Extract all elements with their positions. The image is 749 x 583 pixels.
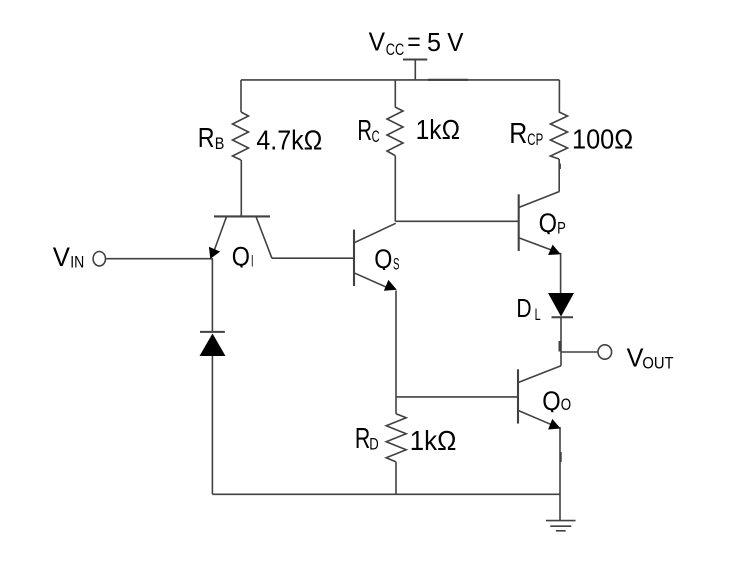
wire RD bottom lead (395, 462, 397, 494)
svg-text:D: D (516, 295, 531, 323)
diode D1 triangle (200, 334, 226, 357)
wire overlap artifact on RCP lower lead (559, 164, 561, 170)
svg-text:R: R (198, 122, 215, 153)
diode D_L triangle (548, 293, 574, 317)
transistor Q_O collector (518, 366, 561, 383)
wire QP emitter vertical to diode (560, 253, 562, 293)
transistor Q_I collector (256, 216, 272, 258)
svg-text:CP: CP (527, 131, 543, 149)
wire QS collector node to QP base (395, 220, 518, 222)
wire VOUT (561, 351, 598, 353)
wire overlap artifact above VOUT node (558, 341, 560, 352)
resistor R_B (233, 112, 249, 160)
power VCC symbol (403, 60, 427, 80)
svg-text:IN: IN (70, 254, 84, 272)
transistor Q_P emitter (519, 238, 553, 251)
svg-text:Q: Q (542, 386, 560, 416)
svg-text:=: = (407, 29, 421, 57)
svg-text:OUT: OUT (642, 354, 673, 372)
svg-text:4.7kΩ: 4.7kΩ (256, 125, 322, 156)
wire top rail overlap segment (428, 79, 468, 81)
wire RCP bottom lead (558, 159, 560, 192)
wire QO emitter vertical to ground (559, 427, 561, 521)
svg-text:5: 5 (427, 29, 441, 57)
svg-text:L: L (535, 306, 541, 324)
svg-text:R: R (357, 115, 372, 147)
wire diode to bottom rail (211, 356, 213, 494)
transistor Q_S collector (354, 223, 396, 243)
ground symbol (546, 521, 576, 531)
wire RC branch vertical top lead (394, 80, 396, 107)
arrow QS emitter (384, 280, 397, 291)
wire VIN node down to diode (211, 259, 213, 332)
resistor R_D (386, 414, 406, 462)
svg-text:V: V (447, 29, 463, 57)
svg-text:100Ω: 100Ω (572, 123, 633, 154)
svg-text:1kΩ: 1kΩ (410, 425, 457, 456)
svg-text:Q: Q (232, 241, 250, 271)
wire VIN (106, 258, 213, 260)
transistor Q_I emitter (214, 216, 227, 251)
wire QO collector vertical (560, 352, 562, 366)
wire DL to VOUT node (560, 317, 562, 352)
wire QS emitter node to QO base (396, 396, 518, 398)
svg-text:Q: Q (374, 244, 392, 274)
svg-text:R: R (509, 118, 527, 150)
svg-text:V: V (369, 29, 385, 57)
wire RC bottom lead (394, 156, 396, 222)
arrow QO emitter (548, 419, 560, 430)
svg-text:D: D (369, 435, 379, 453)
svg-text:O: O (561, 396, 572, 414)
transistor Q_S base bar (353, 230, 355, 286)
resistor R_CP (550, 112, 567, 159)
transistor Q_P base bar (518, 194, 520, 251)
arrow QP emitter (548, 245, 561, 255)
wire QS emitter vertical (395, 291, 397, 397)
wire RCP top lead (558, 80, 560, 113)
resistor R_D leads (395, 397, 397, 414)
wire QI collector to QS base (272, 257, 354, 259)
transistor Q_P collector (519, 192, 560, 208)
wire RB bottom lead to QI base (240, 160, 242, 216)
wire RB top lead (240, 80, 242, 112)
svg-text:C: C (372, 128, 380, 146)
terminal VOUT circle (598, 345, 612, 359)
svg-text:1kΩ: 1kΩ (416, 114, 460, 145)
transistor Q_O emitter (518, 410, 552, 424)
svg-text:CC: CC (386, 41, 404, 59)
transistor Q_O base bar (517, 369, 519, 423)
white trims for Q tails (238, 268, 254, 272)
svg-text:Q: Q (539, 208, 557, 238)
svg-text:R: R (355, 423, 370, 455)
wire overlap artifact on QO emitter wire (560, 452, 562, 462)
terminal VIN circle (93, 252, 105, 266)
transistor Q_S emitter (354, 273, 390, 289)
resistor R_C (387, 107, 403, 156)
diode D1 cathode bar (200, 331, 225, 333)
diode D_L cathode bar (552, 316, 574, 318)
wire bottom rail (212, 493, 560, 495)
transistor Q_I base bar (214, 215, 270, 217)
arrow QI emitter (209, 247, 220, 259)
svg-text:V: V (53, 242, 71, 272)
wire top rail (241, 79, 559, 81)
svg-text:B: B (215, 135, 225, 153)
